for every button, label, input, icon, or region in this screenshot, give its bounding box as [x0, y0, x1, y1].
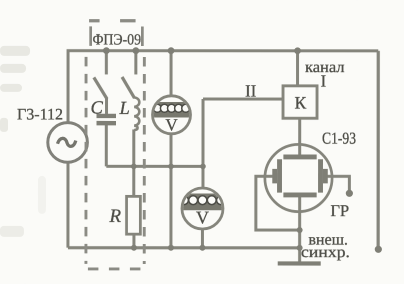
oscilloscope screen top bar [283, 154, 316, 159]
svg-text:синхр.: синхр. [301, 244, 350, 261]
capacitor C top plate [97, 114, 117, 118]
junction dot bottom bus / V2 [199, 245, 205, 251]
resistor R body [127, 196, 141, 234]
top bus wire [67, 49, 379, 52]
generator bottom lead wire [66, 162, 69, 248]
junction dot top bus / C branch [103, 47, 110, 54]
junction dot mid wire / V1 [168, 164, 174, 170]
switch S2 blade (L branch) [122, 77, 135, 98]
wire K box to oscilloscope [298, 118, 301, 155]
junction dot top bus / K branch [294, 47, 301, 54]
svg-text:ФПЭ-09: ФПЭ-09 [93, 31, 142, 48]
inductor L coil [134, 97, 139, 130]
generator G3-112 circle [48, 123, 88, 163]
junction dot bottom bus / R [131, 245, 137, 251]
svg-text:К: К [294, 93, 306, 113]
wire R to bottom bus [132, 234, 135, 248]
capacitor C bottom plate [97, 121, 117, 125]
wire right plate to GR terminal [323, 176, 349, 191]
voltmeter V1 lower lead wire [169, 134, 172, 248]
oscilloscope left deflection plate [272, 169, 277, 184]
voltmeter V2 lower lead wire [201, 229, 204, 248]
svg-text:С1-93: С1-93 [322, 129, 356, 148]
oscilloscope screen left bar [277, 159, 282, 192]
voltmeter V2 internals [180, 193, 226, 210]
dashed enclosure box FPE-09 [86, 21, 145, 269]
svg-text:C: C [91, 98, 104, 118]
svg-text:R: R [108, 206, 121, 227]
svg-text:I: I [321, 72, 327, 91]
svg-text:ГР: ГР [330, 201, 349, 220]
junction dot bottom bus / V1 [168, 245, 174, 251]
capacitor C lower lead wire [105, 125, 108, 166]
voltmeter V1 internals [150, 102, 193, 118]
terminal dot right wire end [375, 246, 382, 253]
right vertical wire [377, 51, 380, 249]
junction dot top bus / V1 [168, 47, 175, 54]
svg-text:II: II [245, 82, 257, 101]
voltmeter V1 top lead wire [170, 51, 173, 97]
junction dot mid wire / L-R branch [131, 164, 137, 170]
svg-text:L: L [119, 99, 130, 119]
switch S1 blade (C branch) [94, 77, 107, 99]
L branch top stub wire [134, 51, 137, 75]
voltmeter V1 circle [153, 96, 191, 134]
junction dot scope line / plate loop [297, 227, 303, 233]
ground symbol [278, 261, 321, 265]
bottom bus wire [68, 246, 300, 249]
middle horizontal wire [106, 165, 203, 168]
generator sine symbol [57, 138, 75, 146]
svg-text:V: V [165, 115, 178, 134]
oscilloscope screen right bar [318, 159, 323, 192]
wire blade to capacitor [105, 97, 108, 113]
oscilloscope right deflection plate [323, 169, 328, 184]
wire bus to K box [296, 51, 299, 86]
voltmeter V2 circle [182, 188, 223, 229]
commutator box K [283, 86, 317, 118]
channel II horizontal wire [203, 98, 283, 101]
junction dot bottom bus / scope line [297, 245, 303, 251]
wire L to R [132, 129, 135, 196]
oscilloscope screen bottom bar [283, 192, 316, 197]
svg-text:V: V [196, 207, 209, 227]
wire left plate loop [256, 176, 300, 230]
generator top lead wire [67, 51, 70, 123]
C branch top stub wire [105, 51, 108, 75]
junction dot top bus / L branch [132, 47, 139, 54]
wire screen bottom to ground [298, 197, 301, 262]
terminal dot GR [346, 190, 353, 197]
channel II vertical wire [201, 99, 204, 189]
svg-text:Г3-112: Г3-112 [17, 106, 63, 123]
oscilloscope C1-93 circle [265, 144, 332, 211]
junction dot mid wire / V2 [200, 164, 206, 170]
